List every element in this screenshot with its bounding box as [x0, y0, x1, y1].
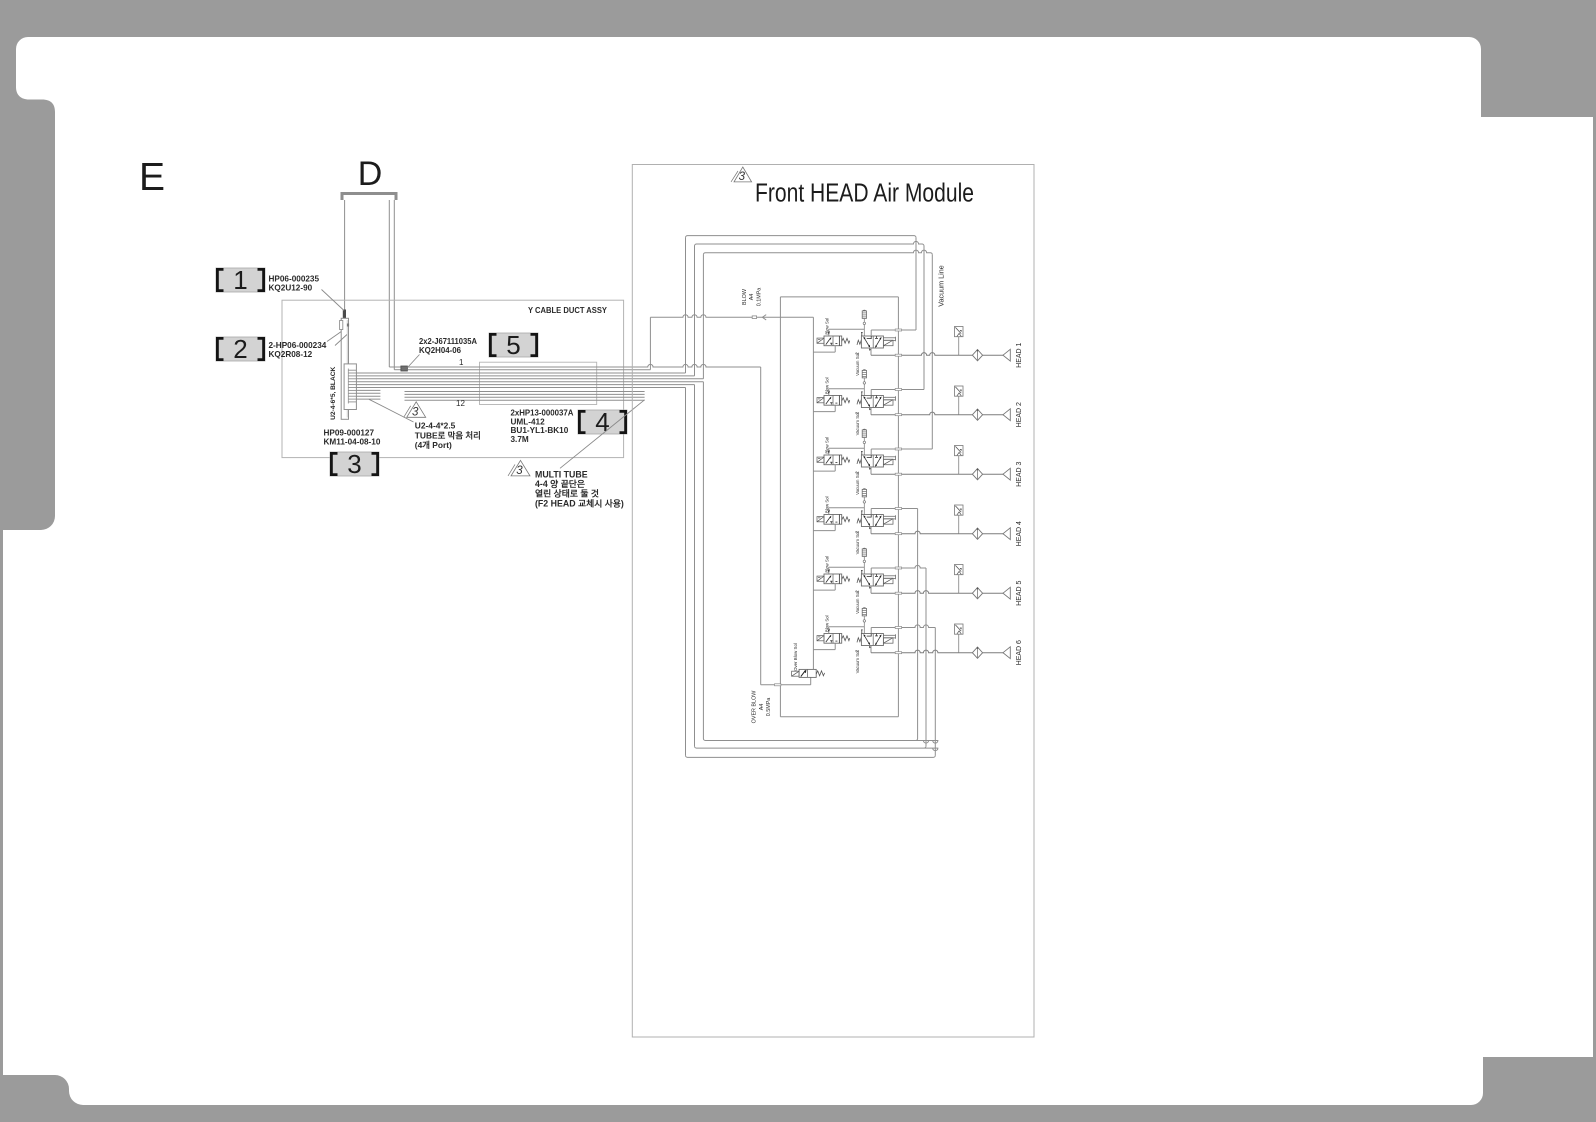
row 6 head line — [871, 650, 972, 653]
svg-text:2: 2 — [233, 334, 247, 364]
row 3 vacuum upper line — [871, 448, 932, 450]
svg-text:HEAD 5: HEAD 5 — [1016, 580, 1023, 605]
multi tube housing box — [480, 362, 597, 404]
muffler — [862, 548, 866, 574]
row 2 vacuum upper line — [871, 389, 924, 391]
valve row 4 — [813, 489, 1010, 555]
Y CABLE DUCT ASSY box — [282, 300, 624, 457]
blow solenoid valve — [813, 329, 864, 352]
svg-text:Blow Sol: Blow Sol — [825, 615, 830, 632]
blow solenoid valve — [813, 389, 864, 412]
svg-text:HP09-000127: HP09-000127 — [324, 429, 375, 438]
svg-text:0.5MPa: 0.5MPa — [766, 698, 772, 717]
filter + check valve + nozzle — [955, 386, 1011, 421]
callout box 4 — [578, 410, 627, 434]
svg-text:BU1-YL1-BK10: BU1-YL1-BK10 — [511, 426, 569, 435]
svg-text:0.1MPa: 0.1MPa — [756, 288, 762, 307]
svg-text:E: E — [139, 156, 165, 199]
svg-text:Y CABLE DUCT ASSY: Y CABLE DUCT ASSY — [528, 305, 607, 315]
muffler — [862, 489, 866, 515]
svg-text:Vacuum Sol: Vacuum Sol — [855, 591, 860, 614]
svg-text:12: 12 — [456, 399, 465, 408]
blow solenoid valve — [813, 448, 864, 471]
BLOW supply line — [650, 315, 813, 318]
svg-text:Vacuum Sol: Vacuum Sol — [855, 651, 860, 674]
filter + check valve + nozzle — [955, 505, 1011, 540]
svg-text:(F2 HEAD 교체시 사용): (F2 HEAD 교체시 사용) — [535, 497, 624, 508]
svg-text:3: 3 — [347, 449, 361, 479]
muffler — [862, 608, 866, 634]
valve row 3 — [813, 429, 1010, 495]
row 3 head line — [871, 473, 972, 475]
callout box 3 — [330, 452, 379, 476]
svg-text:Vacuum Sol: Vacuum Sol — [855, 472, 860, 495]
svg-text:KQ2U12-90: KQ2U12-90 — [269, 284, 313, 293]
row 5 head line — [871, 591, 972, 594]
connector 2x2-J67111035A — [401, 366, 408, 371]
triangle3 multitube note — [511, 460, 530, 476]
leader 5 — [408, 355, 420, 368]
callout box 2 — [216, 337, 265, 361]
svg-text:UML-412: UML-412 — [511, 417, 546, 426]
tube row y=375.9 — [356, 375, 694, 377]
svg-text:HEAD 6: HEAD 6 — [1016, 640, 1023, 665]
blow solenoid valve — [813, 627, 864, 650]
filter + check valve + nozzle — [955, 446, 1011, 481]
row 6 vacuum upper line — [871, 625, 935, 628]
callout box 1 — [216, 268, 265, 292]
svg-text:Blow Sol: Blow Sol — [825, 496, 830, 513]
svg-text:1: 1 — [459, 358, 464, 367]
tube row y=381.7 — [356, 381, 703, 383]
svg-text:2x2-J67111035A: 2x2-J67111035A — [419, 337, 477, 346]
svg-text:3: 3 — [739, 171, 746, 183]
row 1 head line — [871, 353, 972, 356]
row 5 vacuum upper line — [871, 565, 926, 568]
svg-text:OVER BLOW: OVER BLOW — [751, 690, 757, 724]
svg-text:MULTI TUBE: MULTI TUBE — [535, 470, 588, 480]
leader from stubs to note — [369, 399, 414, 422]
Front HEAD Air Module box — [632, 165, 1034, 1038]
blow solenoid valve — [813, 567, 864, 590]
fitting HP06-000235 item1 — [343, 310, 346, 319]
filter + check valve + nozzle — [955, 327, 1011, 362]
svg-text:1: 1 — [233, 265, 247, 295]
blow solenoid valve — [813, 508, 864, 531]
svg-text:Vacuum Line: Vacuum Line — [937, 265, 946, 306]
svg-text:Vacuum Sol: Vacuum Sol — [855, 353, 860, 376]
tube row y=387.5 — [356, 387, 685, 389]
svg-text:5: 5 — [506, 330, 520, 360]
right short verticals top set — [915, 238, 917, 330]
row 4 vacuum upper line — [871, 508, 917, 510]
blocked stub tubes (4 port) — [356, 389, 380, 391]
tube row y=373.0 — [356, 372, 685, 374]
valve row 1 — [813, 310, 1010, 376]
over blow solenoid valve — [792, 669, 825, 677]
tube pair from connector: blow feed pair — [407, 364, 760, 367]
manifold comb item3 — [344, 364, 356, 410]
over blow supply line — [761, 684, 811, 686]
svg-text:(4개 Port): (4개 Port) — [415, 440, 452, 450]
detail D bracket — [342, 194, 396, 201]
filter + check valve + nozzle — [955, 565, 1011, 600]
row 2 head line — [871, 412, 972, 415]
blow manifold vertical — [812, 317, 814, 669]
svg-text:3: 3 — [412, 406, 419, 418]
triangle3 title — [734, 167, 752, 182]
elbow fitting 2-HP06-000234 item2 — [340, 321, 343, 330]
open multitube 4-4 lines — [405, 391, 645, 393]
svg-text:A4: A4 — [749, 294, 755, 301]
vacuum solenoid valve — [854, 509, 895, 534]
muffler — [862, 429, 866, 455]
svg-text:HEAD 1: HEAD 1 — [1016, 342, 1023, 367]
manifold loop bottom edges — [686, 755, 936, 757]
svg-text:Blow Sol: Blow Sol — [825, 437, 830, 454]
leader 1 — [322, 290, 345, 311]
svg-text:BLOW: BLOW — [742, 288, 748, 305]
svg-text:HP06-000235: HP06-000235 — [269, 275, 320, 284]
svg-text:Front HEAD Air Module: Front HEAD Air Module — [755, 180, 974, 208]
svg-text:HEAD 2: HEAD 2 — [1016, 402, 1023, 427]
row 4 head line — [871, 531, 972, 534]
svg-text:3: 3 — [516, 465, 523, 477]
vacuum solenoid valve — [854, 628, 895, 653]
inner loop — [780, 296, 898, 298]
left verticals upper (tubes 1-3 risers) — [685, 238, 687, 373]
svg-text:2xHP13-000037A: 2xHP13-000037A — [511, 409, 574, 418]
right short verticals bottom set — [934, 628, 936, 756]
callout box 5 — [489, 333, 538, 357]
tube row y=384.6 — [356, 384, 694, 386]
svg-text:Blow Sol: Blow Sol — [825, 377, 830, 394]
svg-text:2-HP06-000234: 2-HP06-000234 — [269, 341, 327, 350]
svg-text:KQ2R08-12: KQ2R08-12 — [269, 350, 313, 359]
svg-text:4-4 양 끝단은: 4-4 양 끝단은 — [535, 478, 585, 489]
cable duct bar — [341, 318, 348, 419]
svg-text:U2-4-4*2.5: U2-4-4*2.5 — [415, 421, 456, 431]
svg-text:D: D — [358, 155, 383, 193]
svg-text:Blow Sol: Blow Sol — [825, 318, 830, 335]
tube row y=378.8 — [356, 378, 703, 380]
svg-text:TUBE로 막음 처리: TUBE로 막음 처리 — [415, 430, 481, 440]
filter + check valve + nozzle — [955, 624, 1011, 659]
wire D right tube pair — [388, 200, 390, 367]
vacuum bus vertical — [897, 297, 899, 717]
leader 2 — [327, 332, 341, 342]
svg-text:3.7M: 3.7M — [511, 435, 529, 444]
manifold loop top edges — [686, 236, 917, 238]
svg-text:4: 4 — [595, 407, 609, 437]
vacuum solenoid valve — [854, 568, 895, 593]
triangle3 U2 note — [407, 402, 426, 418]
svg-text:HEAD 3: HEAD 3 — [1016, 461, 1023, 486]
svg-text:KM11-04-08-10: KM11-04-08-10 — [324, 438, 381, 447]
wire: tube1 drops to over blow feed — [760, 367, 762, 685]
wire: lower pair rises to BLOW line — [649, 317, 651, 369]
svg-text:Over Blow Sol: Over Blow Sol — [793, 643, 798, 671]
vacuum solenoid valve — [854, 390, 895, 415]
row 1 vacuum upper line — [871, 329, 916, 331]
vacuum solenoid valve — [854, 449, 895, 474]
svg-text:Vacuum Sol: Vacuum Sol — [855, 532, 860, 555]
svg-text:Vacuum Sol: Vacuum Sol — [855, 413, 860, 436]
wire D left drop — [344, 200, 346, 310]
coupler on blow line — [752, 316, 756, 319]
svg-text:A4: A4 — [759, 704, 765, 711]
over blow valve stub bottom — [810, 677, 812, 684]
svg-text:U2-4-6*5, BLACK: U2-4-6*5, BLACK — [330, 367, 337, 420]
left verticals lower (tubes 4-6 droppers) — [685, 388, 687, 756]
muffler — [862, 370, 866, 396]
valve row 5 — [813, 548, 1010, 614]
svg-text:KQ2H04-06: KQ2H04-06 — [419, 346, 461, 355]
valve row 2 — [813, 370, 1010, 436]
svg-text:Blow Sol: Blow Sol — [825, 556, 830, 573]
arrow coupling — [762, 315, 766, 320]
leader multitube end to note4 — [560, 400, 645, 469]
svg-text:열린 상태로 둘 것: 열린 상태로 둘 것 — [535, 488, 599, 499]
svg-text:HEAD 4: HEAD 4 — [1016, 521, 1023, 546]
muffler — [862, 310, 866, 336]
valve row 6 — [813, 608, 1010, 674]
vacuum solenoid valve — [854, 330, 895, 355]
